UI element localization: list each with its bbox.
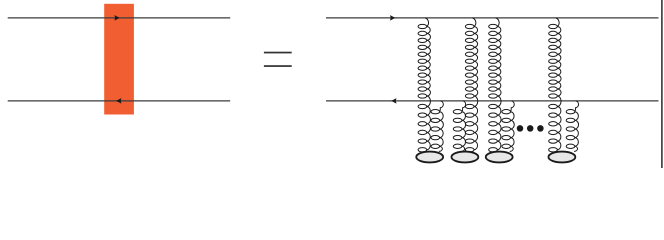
orange interaction blob rectangle	[104, 4, 134, 115]
blob3 ellipse	[486, 152, 513, 163]
long gluon coil g1 from top line down to blob	[418, 18, 430, 152]
short gluon coil s2 from bottom line down to blob	[453, 101, 465, 151]
arrow left on bottom-right quark line	[391, 98, 396, 104]
top quark line (right diagram)	[326, 17, 659, 19]
blob1 ellipse	[416, 152, 443, 163]
ellipsis dots between blob3 and blob4	[517, 125, 524, 132]
long gluon coil g2 from top line down to blob	[465, 18, 477, 152]
arrow right on top-right quark line	[390, 15, 395, 21]
blob4 ellipse	[548, 152, 575, 163]
long gluon coil g3 from top line down to blob	[489, 18, 501, 152]
blob2 ellipse	[451, 152, 478, 163]
bottom quark line (right diagram)	[326, 100, 659, 102]
right page-edge vertical rule	[661, 0, 663, 168]
equals sign bottom bar	[264, 65, 292, 67]
arrow right on top-left quark line	[114, 15, 119, 21]
bottom quark line (left diagram)	[8, 100, 231, 102]
short gluon coil s4 from bottom line down to blob	[566, 101, 578, 151]
short gluon coil s1 from bottom line down to blob	[431, 101, 443, 151]
arrow left on bottom-left quark line	[116, 98, 121, 104]
short gluon coil s3 from bottom line down to blob	[502, 101, 514, 151]
top quark line (left diagram)	[8, 17, 231, 19]
equals sign top bar	[264, 52, 292, 54]
long gluon coil g4 from top line down to blob	[549, 18, 561, 152]
